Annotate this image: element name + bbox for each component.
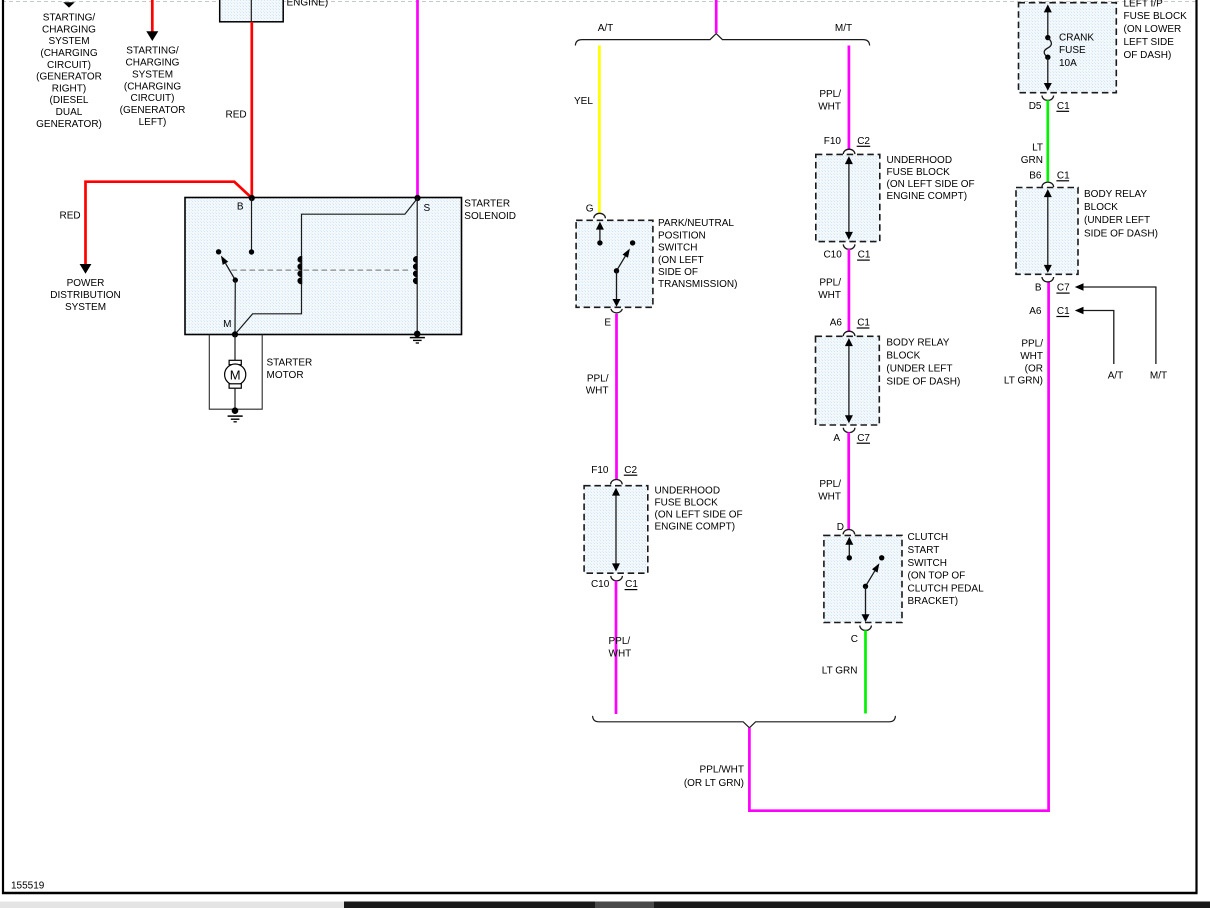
svg-text:A: A [833,433,840,444]
off-page arrow to power distribution system [80,264,92,274]
fuse feed arrow up [1047,10,1049,38]
clutch switch arm [866,571,875,586]
svg-text:(GENERATOR: (GENERATOR [36,72,102,83]
svg-text:CIRCUIT): CIRCUIT) [47,60,91,71]
svg-text:BLOCK: BLOCK [1084,202,1118,213]
connector arc E [611,309,622,313]
svg-text:TRANSMISSION): TRANSMISSION) [658,279,737,290]
left I/P fuse block box [1019,3,1117,93]
svg-text:BODY RELAY: BODY RELAY [886,337,949,348]
node fuse bottom dot [1045,55,1050,60]
page right border [1195,0,1197,894]
svg-text:CHARGING: CHARGING [126,58,180,69]
svg-text:(ON LEFT: (ON LEFT [658,255,704,266]
svg-text:A6: A6 [1029,306,1042,317]
svg-text:M/T: M/T [835,23,852,34]
brace merge at bottom [593,716,896,728]
fuse block right through-wire double arrow [848,161,850,235]
svg-text:WHT: WHT [1020,351,1043,362]
svg-text:(UNDER LEFT: (UNDER LEFT [886,364,952,375]
svg-text:STARTING/: STARTING/ [43,13,96,24]
svg-text:M/T: M/T [1150,371,1167,382]
svg-text:CRANK: CRANK [1059,32,1094,43]
wire YEL [598,46,601,214]
svg-text:LT GRN): LT GRN) [1004,376,1043,387]
svg-text:A/T: A/T [1108,371,1124,382]
svg-text:B: B [237,202,244,213]
connector arc F10/C2 (right) [843,149,855,154]
svg-text:PARK/NEUTRAL: PARK/NEUTRAL [658,218,734,229]
svg-text:YEL: YEL [574,96,593,107]
connector arc F10/C2 [611,480,623,485]
svg-text:SYSTEM: SYSTEM [132,69,173,80]
svg-text:RED: RED [226,110,247,121]
svg-text:LEFT): LEFT) [139,117,167,128]
svg-text:PPL/: PPL/ [609,636,631,647]
svg-text:WHT: WHT [818,290,841,301]
svg-text:A/T: A/T [598,23,614,34]
svg-text:MOTOR: MOTOR [267,370,304,381]
svg-text:SIDE OF DASH): SIDE OF DASH) [886,377,960,388]
svg-text:WHT: WHT [818,101,841,112]
svg-text:PPL/: PPL/ [819,278,841,289]
svg-text:STARTER: STARTER [464,199,510,210]
svg-text:STARTER: STARTER [267,358,313,369]
mechanical linkage dashed line [232,269,412,271]
svg-text:RIGHT): RIGHT) [52,83,86,94]
svg-text:(CHARGING: (CHARGING [40,48,97,59]
underhood fuse block box (left) [584,486,648,574]
svg-text:LEFT I/P: LEFT I/P [1124,0,1164,9]
wire PPL from top to brace [715,0,718,33]
fuse output arrow down [1047,57,1049,85]
svg-text:RED: RED [60,211,81,222]
park/neutral position switch box [576,220,653,307]
wire PPL/WHT fuse block to brace [615,581,618,714]
page bottom border [2,892,1198,895]
wire motor to ground [234,388,236,410]
svg-text:WHT: WHT [609,649,632,660]
scrollbar thumb [595,902,654,908]
svg-text:ENGINE COMPT): ENGINE COMPT) [887,191,968,202]
svg-text:A6: A6 [830,318,843,329]
page left border [2,0,4,894]
svg-text:GENERATOR): GENERATOR) [36,119,102,130]
wire S to coil2 [416,198,418,256]
starter motor housing outline [209,335,262,410]
motor brush top [229,360,241,364]
body relay right through-wire double arrow [1047,194,1049,268]
svg-text:PPL/: PPL/ [819,479,841,490]
connector arc D [843,530,855,535]
svg-text:CLUTCH: CLUTCH [908,532,949,543]
page top dashed border [2,1,1196,3]
fuse element crank fuse 10A [1044,38,1051,58]
pnp switch input arrow up [599,227,601,243]
svg-text:(ON TOP OF: (ON TOP OF [908,571,966,582]
svg-text:10A: 10A [1059,58,1077,69]
svg-text:C1: C1 [625,579,638,590]
svg-text:D: D [837,522,844,533]
svg-text:C: C [851,634,858,645]
svg-text:SOLENOID: SOLENOID [464,211,516,222]
svg-text:POWER: POWER [67,278,105,289]
node S junction dot [414,195,420,201]
pull-in coil L1 [301,256,303,285]
scrollbar dark track [344,902,1210,908]
wire PPL/WHT pnp to fuse block [615,314,618,480]
node fuse top dot [1045,35,1050,40]
svg-text:SWITCH: SWITCH [658,243,697,254]
connector arc B/C7 (right) [1042,277,1054,282]
svg-text:PPL/: PPL/ [819,89,841,100]
hold-in coil L2 [416,256,418,285]
svg-text:SIDE OF DASH): SIDE OF DASH) [1084,228,1158,239]
svg-text:(OR LT GRN): (OR LT GRN) [684,778,744,789]
body relay mid through-wire double arrow [848,343,850,418]
svg-text:FUSE: FUSE [1059,45,1086,56]
connector arc A/C7 (mid) [843,428,855,433]
svg-text:D5: D5 [1029,101,1042,112]
svg-text:START: START [908,545,940,556]
svg-text:F10: F10 [824,136,842,147]
battery junction block box (cut off at top) [220,0,284,22]
connector arc A6/C1 (mid) [843,331,855,336]
svg-text:C1: C1 [1057,101,1070,112]
svg-text:B: B [1035,283,1042,294]
svg-text:WHT: WHT [818,491,841,502]
svg-text:GRN: GRN [1021,155,1043,166]
ground starter motor [228,415,243,417]
node clutch contact dot [879,555,884,560]
svg-text:CLUTCH PEDAL: CLUTCH PEDAL [908,583,985,594]
svg-text:M: M [223,319,231,330]
svg-text:POSITION: POSITION [658,230,706,241]
svg-text:LT GRN: LT GRN [822,666,858,677]
svg-text:CHARGING: CHARGING [42,24,96,35]
svg-text:C10: C10 [591,579,610,590]
off-page arrow to starting/charging system (generator left) [146,31,158,41]
scrollbar track left light segment [0,902,344,908]
node pnp input dot [597,240,602,245]
wire PPL/WHT body relay to clutch switch [847,432,850,529]
node pnp contact dot [630,240,635,245]
starter motor M1 circle [225,364,246,385]
svg-text:C1: C1 [1057,170,1070,181]
svg-text:FUSE BLOCK: FUSE BLOCK [1124,11,1188,22]
node motor ground dot [232,407,239,414]
wire PPL/WHT M/T branch [848,46,851,150]
svg-text:(GENERATOR: (GENERATOR [120,105,186,116]
svg-text:C2: C2 [857,136,870,147]
node pnp pivot dot [614,268,619,273]
wire RED from junction block to solenoid B [250,22,253,198]
wire coil2 to ground [416,284,418,334]
node clutch input dot [847,555,852,560]
svg-text:WHT: WHT [586,386,609,397]
svg-text:SYSTEM: SYSTEM [48,36,89,47]
wire red branch to power distribution [86,182,252,265]
wire PNK to solenoid S [416,0,419,198]
svg-text:(ON LOWER: (ON LOWER [1124,24,1182,35]
svg-text:(DIESEL: (DIESEL [50,95,89,106]
wire LT GRN fuse to body relay [1046,100,1049,181]
pointer arrow M/T to C7 [1083,287,1156,364]
svg-text:SIDE OF: SIDE OF [658,267,698,278]
connector arc D5/C1 [1042,96,1054,101]
pnp output arrow down [616,271,618,302]
svg-text:DUAL: DUAL [56,107,83,118]
pnp switch arm [617,256,626,271]
svg-text:C1: C1 [858,250,871,261]
svg-text:C10: C10 [823,250,842,261]
underhood fuse block box (right) [816,154,880,241]
svg-text:C1: C1 [1057,306,1070,317]
body relay block box (right) [1016,188,1078,275]
clutch switch input arrow up [848,542,850,558]
svg-text:ENGINE COMPT): ENGINE COMPT) [655,522,736,533]
svg-text:PPL/: PPL/ [587,374,609,385]
svg-text:(ON LEFT SIDE OF: (ON LEFT SIDE OF [887,179,975,190]
svg-text:STARTING/: STARTING/ [126,46,179,57]
svg-text:PPL/: PPL/ [1021,339,1043,350]
motor brush bottom [229,384,241,388]
svg-text:SYSTEM: SYSTEM [65,302,106,313]
off-page arrow to starting/charging system (generator right) [63,2,75,7]
node coil ground dot [414,331,421,338]
wire PPL/WHT (or LT GRN) bottom route [749,282,1048,811]
svg-text:E: E [604,317,611,328]
junction block internal wire [250,0,252,22]
node clutch pivot dot [863,584,868,589]
wire B terminal internal [251,198,253,252]
svg-text:(UNDER LEFT: (UNDER LEFT [1084,215,1150,226]
node switch pivot dot [233,277,238,282]
svg-text:BODY RELAY: BODY RELAY [1084,189,1147,200]
svg-text:UNDERHOOD: UNDERHOOD [887,155,953,166]
wire LT GRN clutch to brace [864,630,867,713]
connector arc G [594,213,606,218]
svg-text:DISTRIBUTION: DISTRIBUTION [50,290,121,301]
clutch output arrow down [865,586,867,616]
wire coil1 top to S node [302,198,418,256]
connector arc C [860,626,872,631]
wire red stub to generator left arrow [151,0,154,32]
svg-text:(CHARGING: (CHARGING [124,81,181,92]
svg-text:LT: LT [1032,143,1043,154]
svg-text:C1: C1 [857,318,870,329]
wire PPL/WHT to body relay block [848,249,851,332]
svg-text:C2: C2 [624,465,637,476]
connector arc C10/C1 (right) [843,244,855,249]
ground solenoid coil [410,337,425,339]
svg-text:FUSE BLOCK: FUSE BLOCK [887,167,951,178]
fuse block through-wire double arrow [615,493,617,567]
svg-text:(ON LEFT SIDE OF: (ON LEFT SIDE OF [655,510,743,521]
svg-text:C7: C7 [857,433,870,444]
svg-text:SWITCH: SWITCH [908,558,947,569]
brace A/T M/T split [575,34,869,46]
svg-text:FUSE BLOCK: FUSE BLOCK [655,497,719,508]
connector arc B6/C1 [1042,182,1054,187]
svg-text:ENGINE): ENGINE) [287,0,329,9]
svg-text:B6: B6 [1029,170,1042,181]
starter solenoid box [185,198,462,335]
wire pivot to M terminal [234,280,236,334]
svg-text:(OR: (OR [1025,363,1043,374]
svg-text:UNDERHOOD: UNDERHOOD [655,485,721,496]
svg-text:LEFT SIDE: LEFT SIDE [1124,37,1175,48]
svg-text:C7: C7 [1057,283,1070,294]
switch arm solenoid contact [226,263,236,280]
svg-text:G: G [586,204,594,215]
node B contact dot [249,249,254,254]
node left contact dot [216,249,221,254]
svg-text:BLOCK: BLOCK [886,350,920,361]
svg-text:S: S [424,203,431,214]
body relay block box (mid) [816,336,880,425]
connector arc C10/C1 [611,576,623,581]
wire M to motor [234,334,236,360]
wire coil1 bottom to M node [235,284,302,334]
pointer arrow A/T to C1 [1083,311,1114,365]
svg-text:OF DASH): OF DASH) [1124,50,1172,61]
node M terminal dot [232,331,238,337]
svg-text:PPL/WHT: PPL/WHT [700,765,744,776]
svg-text:BRACKET): BRACKET) [908,596,959,607]
svg-text:155519: 155519 [11,881,45,892]
svg-text:M: M [230,367,241,382]
node B junction dot [249,195,255,201]
svg-text:CIRCUIT): CIRCUIT) [131,93,175,104]
clutch start switch box [824,535,902,622]
svg-text:F10: F10 [591,465,609,476]
